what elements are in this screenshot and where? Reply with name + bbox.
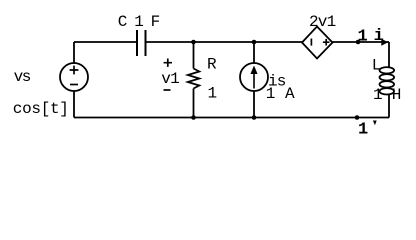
svg-text:cos[t]: cos[t] — [13, 100, 69, 118]
svg-text:2v1: 2v1 — [309, 13, 336, 31]
svg-text:L: L — [372, 57, 381, 75]
svg-text:vs: vs — [14, 68, 31, 86]
svg-text:R: R — [207, 56, 217, 74]
svg-text:A: A — [285, 85, 295, 103]
svg-text:C 1 F: C 1 F — [118, 13, 160, 31]
svg-text:1: 1 — [208, 84, 217, 102]
svg-text:i: i — [374, 27, 384, 46]
svg-text:1: 1 — [358, 27, 368, 46]
svg-text:1: 1 — [358, 121, 368, 140]
svg-text:1: 1 — [266, 85, 275, 103]
svg-text:v1: v1 — [161, 70, 179, 88]
svg-text:1: 1 — [373, 86, 382, 104]
svg-text:H: H — [392, 86, 401, 104]
